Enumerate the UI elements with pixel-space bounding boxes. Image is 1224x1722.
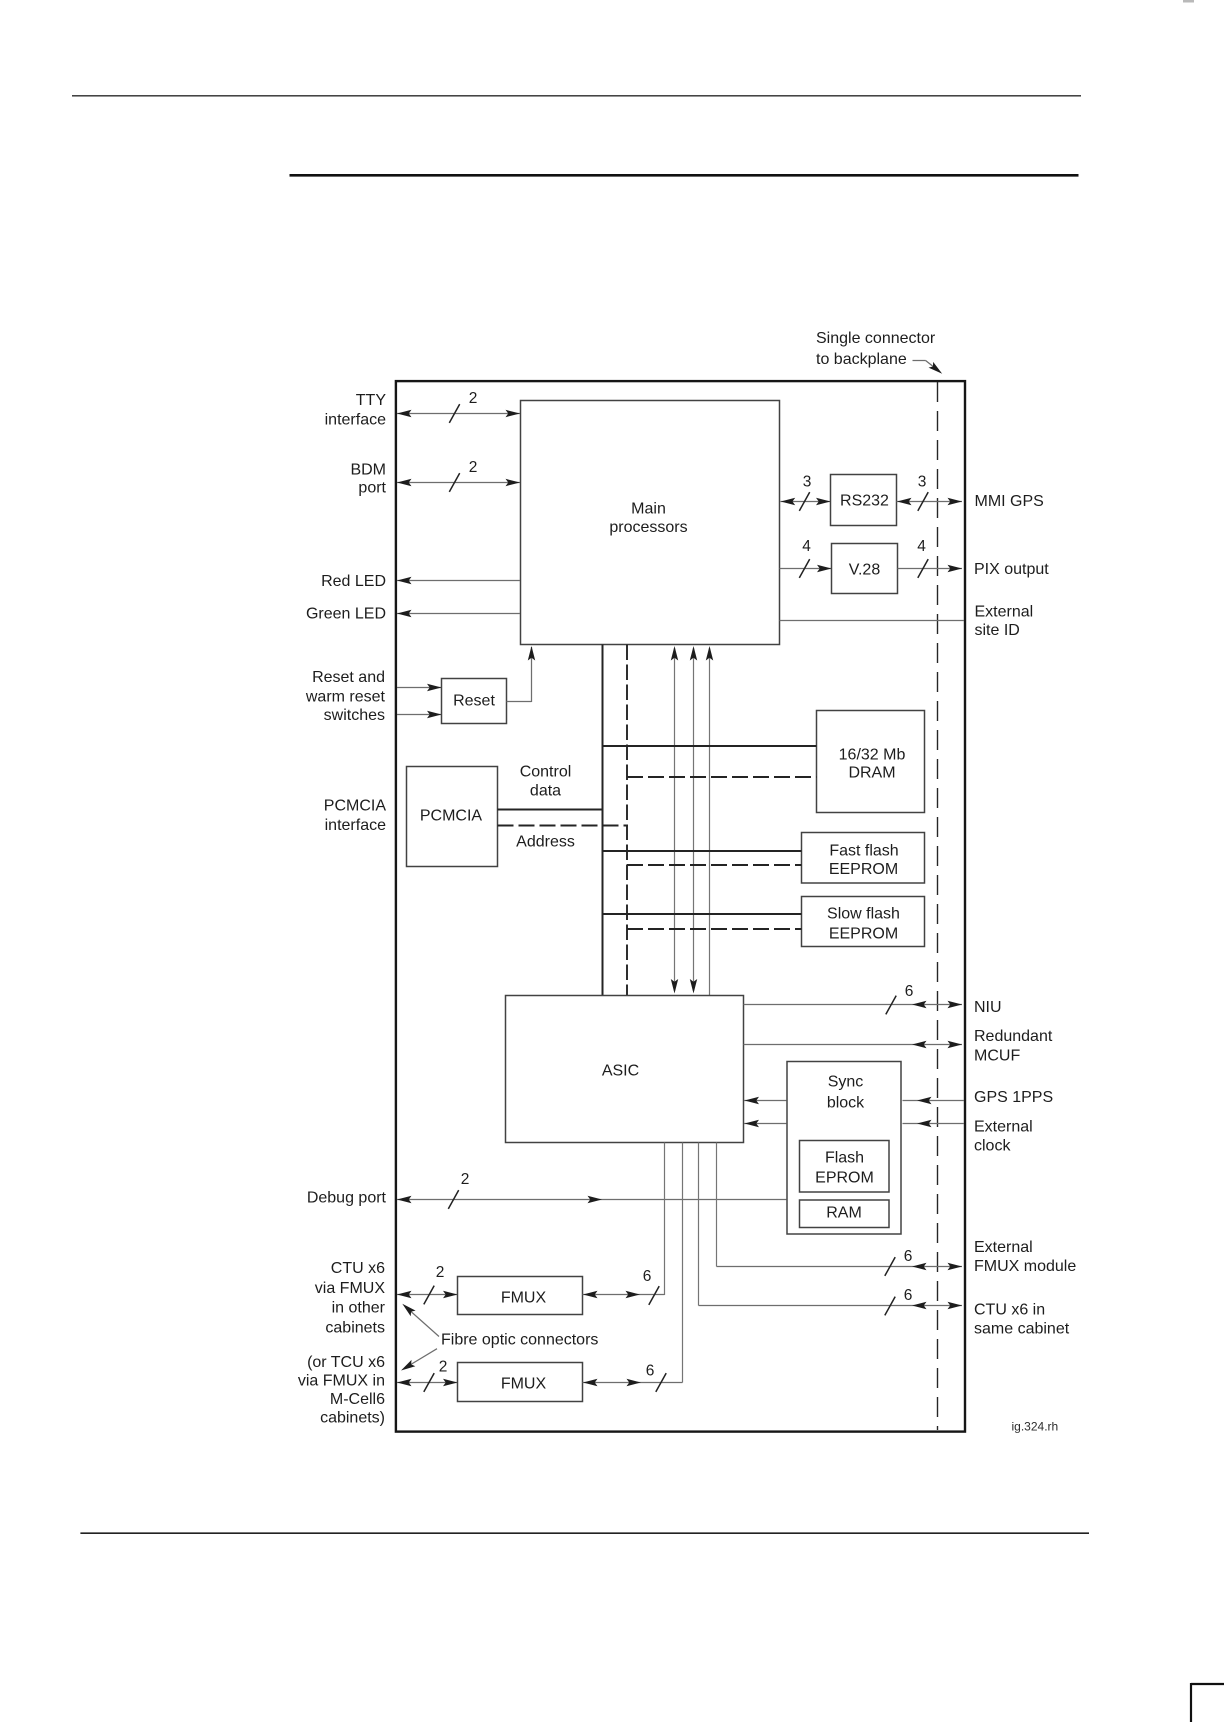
label CTU x6 in same cabinet [974,1302,1070,1338]
svg-text:2: 2 [461,1171,470,1188]
label ASIC [602,1063,639,1080]
svg-text:clock: clock [974,1138,1011,1155]
label Address [516,834,575,851]
block Sync block [787,1062,901,1235]
svg-text:FMUX: FMUX [501,1376,547,1393]
block Flash EPROM [800,1141,890,1193]
svg-text:processors: processors [609,519,687,536]
svg-text:Fast flash: Fast flash [829,843,898,860]
wire BDM port bus-2 [397,473,520,492]
wire Slow flash address dashed [627,928,802,930]
block Fast flash EEPROM [802,833,925,884]
wire CTU other to FMUX1 bus-2 [397,1286,458,1305]
wire Sync to ASIC 1 [744,1097,787,1104]
svg-text:PCMCIA: PCMCIA [324,798,387,815]
svg-text:Control: Control [520,764,572,781]
wire ASIC to NIU bus-6 [744,996,963,1015]
svg-text:Debug port: Debug port [307,1190,387,1207]
svg-text:3: 3 [918,474,927,491]
width label 6 ExtFMUX [904,1248,913,1265]
width label 2 FMUX1 [436,1264,445,1281]
svg-text:EEPROM: EEPROM [829,926,898,943]
svg-text:NIU: NIU [974,999,1002,1016]
block ASIC [506,996,744,1143]
svg-text:6: 6 [904,1248,913,1265]
label GPS 1PPS [974,1089,1053,1106]
svg-text:to backplane: to backplane [816,351,907,368]
svg-text:interface: interface [325,817,386,834]
block V.28 [832,544,898,594]
label Slow flash EEPROM [827,906,900,943]
svg-text:ASIC: ASIC [602,1063,639,1080]
svg-text:MMI GPS: MMI GPS [975,493,1044,510]
label single connector to backplane [816,330,936,368]
wire Slow flash control solid [603,913,802,915]
wire DRAM address dashed [627,776,817,778]
svg-text:MCUF: MCUF [974,1048,1020,1065]
svg-text:switches: switches [324,707,385,724]
svg-text:FMUX: FMUX [501,1290,547,1307]
wire ASIC drop to FMUX2 [682,1143,684,1383]
label FMUX 1 [501,1290,547,1307]
width label 6 NIU [905,983,914,1000]
wire ASIC drop to CTU same cabinet [698,1143,700,1306]
block RS232 [831,475,897,526]
width label 6 FMUX2 [646,1363,655,1380]
label or TCU x6 via FMUX in M-Cell6 cabinets [298,1354,385,1427]
label Control data [520,764,572,800]
label Reset [453,693,495,710]
svg-text:16/32 Mb: 16/32 Mb [839,747,906,764]
figure reference ig.324.rh [1012,1420,1059,1434]
width label 6 CTUsame [904,1287,913,1304]
label External site ID [975,604,1034,640]
wire TCU to FMUX2 bus-2 [397,1373,458,1392]
svg-text:RS232: RS232 [840,493,889,510]
svg-text:RAM: RAM [826,1205,862,1222]
svg-text:Slow flash: Slow flash [827,906,900,923]
wire CTU x6 same cabinet bus-6 [699,1297,963,1316]
width label 3 right [918,474,927,491]
svg-text:6: 6 [905,983,914,1000]
svg-text:Sync: Sync [828,1074,864,1091]
label Fast flash EEPROM [829,843,899,879]
wire reset switch 2 [397,711,442,718]
svg-text:3: 3 [803,474,812,491]
label PCMCIA [420,808,483,825]
block 16/32 Mb DRAM [817,711,925,813]
svg-text:Fibre optic connectors: Fibre optic connectors [441,1332,598,1349]
svg-text:4: 4 [917,538,926,555]
svg-text:External: External [975,604,1034,621]
label Reset and warm reset switches [305,669,386,724]
svg-text:via FMUX in: via FMUX in [298,1373,385,1390]
label Debug port [307,1190,387,1207]
label 16/32 Mb DRAM [839,747,906,782]
wire External FMUX module bus-6 [717,1257,963,1276]
label Redundant MCUF [974,1028,1053,1065]
svg-text:Single connector: Single connector [816,330,936,347]
svg-text:EPROM: EPROM [815,1170,874,1187]
svg-text:6: 6 [646,1363,655,1380]
svg-text:EEPROM: EEPROM [829,861,898,878]
svg-text:interface: interface [325,412,386,429]
svg-text:Reset and: Reset and [312,669,385,686]
svg-text:PCMCIA: PCMCIA [420,808,483,825]
svg-text:2: 2 [439,1359,448,1376]
block Slow flash EEPROM [802,897,925,947]
svg-text:Flash: Flash [825,1150,864,1167]
svg-text:via FMUX: via FMUX [315,1280,386,1297]
wire ASIC drop to FMUX1 [664,1143,666,1296]
wire Debug port [397,1190,787,1209]
svg-text:PIX output: PIX output [974,561,1049,578]
wire FMUX1 to ASIC bus-6 [583,1286,665,1305]
wire Reset to Main processors [507,646,536,702]
svg-text:Reset: Reset [453,693,495,710]
svg-text:6: 6 [643,1268,652,1285]
svg-text:CTU x6 in: CTU x6 in [974,1302,1045,1319]
wire DRAM control solid [603,745,817,747]
wire TTY interface bus-2 [397,404,520,423]
svg-text:4: 4 [802,538,811,555]
wire Main-ASIC signal 3 [706,646,713,996]
svg-text:port: port [358,480,386,497]
svg-text:ig.324.rh: ig.324.rh [1012,1420,1059,1434]
wire PCMCIA address dashed [498,825,628,827]
svg-text:DRAM: DRAM [848,765,895,782]
wire Main-ASIC signal 1 [671,646,678,994]
label TTY interface [325,392,387,429]
wire External site ID [780,620,965,622]
svg-text:cabinets: cabinets [325,1320,385,1337]
wire V.28 to PIX output bus-4 [898,559,963,578]
label MMI GPS [975,493,1044,510]
wire PCMCIA control data [498,809,604,811]
label FMUX 2 [501,1376,547,1393]
svg-text:(or TCU x6: (or TCU x6 [307,1354,385,1371]
label RAM [826,1205,862,1222]
wire ASIC drop to External FMUX [716,1143,718,1267]
wire External clock to Sync [903,1120,965,1127]
fibre optic arrow lower [399,1349,437,1374]
label V.28 [849,562,881,579]
wire Main-ASIC signal 2 [690,646,697,994]
page bottom rule [80,1532,1089,1534]
label External FMUX module [974,1239,1076,1275]
block PCMCIA [407,767,498,867]
block Reset [442,679,507,724]
block FMUX 1 [458,1277,583,1315]
svg-text:Red LED: Red LED [321,573,386,590]
width label 4 left [802,538,811,555]
label Sync block [827,1074,865,1112]
fibre optic arrow upper [400,1301,439,1336]
svg-text:Redundant: Redundant [974,1028,1053,1045]
heading rule [290,174,1079,177]
wire Fast flash control solid [603,850,802,852]
svg-text:6: 6 [904,1287,913,1304]
svg-text:TTY: TTY [356,392,387,409]
wire Fast flash address dashed [627,864,802,866]
block RAM [800,1200,890,1228]
svg-text:block: block [827,1095,865,1112]
label Main processors [609,501,687,537]
svg-text:Green LED: Green LED [306,606,386,623]
svg-text:2: 2 [469,459,478,476]
svg-text:warm reset: warm reset [305,689,386,706]
label PCMCIA interface [324,798,387,835]
wire RS232 to MMI GPS bus-3 [897,492,963,511]
bus address vertical dashed [626,645,628,996]
page corner box bottom right [1191,1683,1224,1722]
label External clock [974,1119,1033,1155]
label Red LED [321,573,386,590]
block FMUX 2 [458,1363,583,1402]
page top right cut mark [1183,0,1194,3]
svg-text:site ID: site ID [975,622,1020,639]
width label 4 right [917,538,926,555]
svg-text:V.28: V.28 [849,562,881,579]
svg-text:FMUX module: FMUX module [974,1258,1076,1275]
wire Green LED [397,610,520,617]
width label 2 FMUX2 [439,1359,448,1376]
wire ASIC to Redundant MCUF [744,1041,963,1048]
wire Red LED [397,577,520,584]
label BDM port [350,462,386,497]
svg-text:External: External [974,1119,1033,1136]
single connector arrow [913,361,945,377]
width label 2 BDM [469,459,478,476]
wire FMUX2 to ASIC bus-6 [583,1373,683,1392]
svg-text:cabinets): cabinets) [320,1410,385,1427]
width label 2 TTY [469,390,478,407]
page top rule [72,95,1081,97]
svg-text:GPS 1PPS: GPS 1PPS [974,1089,1053,1106]
block Main processors [521,401,780,645]
label RS232 [840,493,889,510]
label Flash EPROM [815,1150,874,1187]
wire reset switch 1 [397,684,442,691]
svg-text:2: 2 [469,390,478,407]
label PIX output [974,561,1049,578]
svg-text:BDM: BDM [350,462,386,479]
svg-text:data: data [530,783,561,800]
backplane dashed line [937,382,939,1430]
svg-text:M-Cell6: M-Cell6 [330,1391,385,1408]
svg-text:Main: Main [631,501,666,518]
wire Sync to ASIC 2 [744,1120,787,1127]
wire Main to V.28 bus-4 [780,559,832,578]
width label 3 left [803,474,812,491]
label Fibre optic connectors [441,1332,598,1349]
wire Main to RS232 bus-3 [781,492,831,511]
label CTU x6 via FMUX in other cabinets [315,1260,386,1337]
bus control-data vertical solid [602,645,604,996]
svg-text:External: External [974,1239,1033,1256]
wire GPS 1PPS to Sync [903,1097,965,1104]
width label 2 Debug [461,1171,470,1188]
svg-text:Address: Address [516,834,575,851]
label NIU [974,999,1002,1016]
width label 6 FMUX1 [643,1268,652,1285]
svg-text:CTU x6: CTU x6 [331,1260,385,1277]
outer board box [396,381,965,1432]
svg-text:in other: in other [332,1300,386,1317]
svg-text:same cabinet: same cabinet [974,1321,1070,1338]
label Green LED [306,606,386,623]
svg-text:2: 2 [436,1264,445,1281]
